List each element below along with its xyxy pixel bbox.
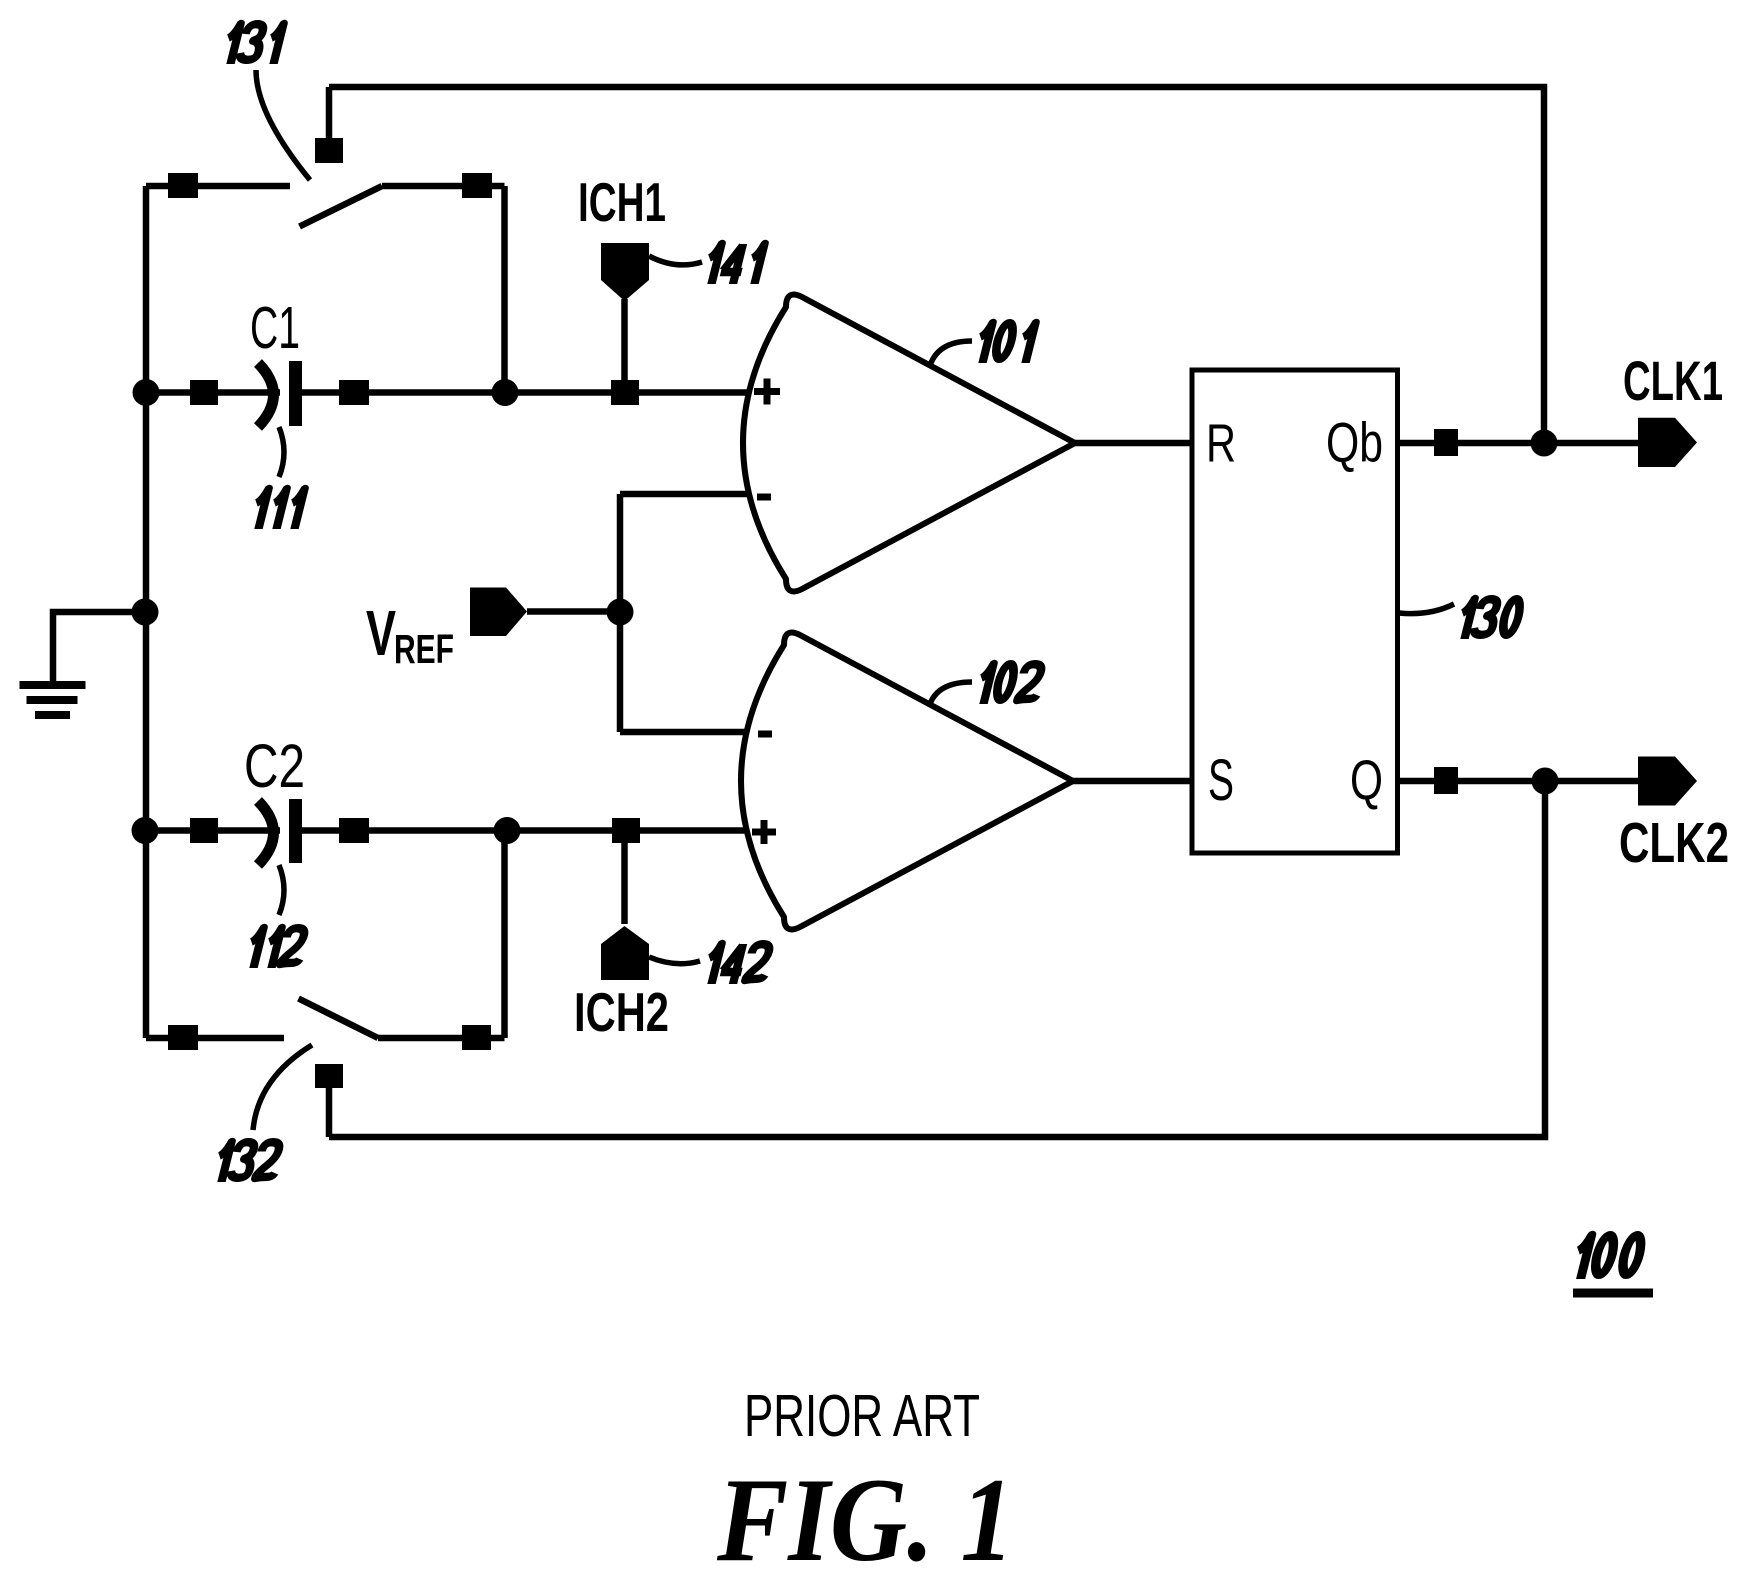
leader for label 101 [929,341,972,369]
current source ICH1 symbol [601,243,649,301]
leader for label 112 [279,865,284,915]
wire right drop from C2 node to switch 132 [501,831,508,1039]
pad C1 right [339,380,369,405]
wire bottom feedback: stub from switch 132 pad down, across bottom, up to CLK2 node [329,781,1545,1137]
CLK1 output arrow [1638,418,1697,467]
label 111 [250,489,304,529]
comparator 102 - input mark [758,731,772,738]
node C2 left [132,817,159,844]
node C2 right [494,817,521,844]
svg-text:V: V [366,597,396,669]
label 130 [1456,599,1523,639]
pad Qb output [1434,429,1458,456]
svg-text:REF: REF [394,626,454,672]
label 101 [974,323,1035,363]
pad ICH2 [612,818,640,843]
wire ICH1 stub [621,299,628,383]
connection pads (squares) [168,138,1458,1088]
pad ICH1 [611,380,639,405]
svg-text:CLK2: CLK2 [1619,811,1729,875]
svg-text:S: S [1208,748,1234,813]
svg-text:R: R [1206,414,1236,474]
node ground tap [132,599,159,626]
node C1 left [133,379,160,406]
switch 132 arm [299,999,379,1039]
pad switch131 right [462,173,492,198]
comparator 101 - input mark [757,494,771,501]
wire top feedback: stub from switch 131 pad up, across top, down to CLK1 node [329,87,1544,443]
svg-text:Qb: Qb [1326,411,1383,474]
label 141 [703,244,764,284]
node VREF [607,599,634,626]
comparator U102 body [741,633,1073,930]
svg-text:ICH1: ICH1 [578,171,666,233]
CLK2 output arrow [1638,757,1697,806]
wire comparator 102 output to latch S [1073,778,1192,785]
leader for label 111 [279,427,284,477]
wire latch Q output to CLK2 [1398,778,1639,785]
pad switch131 top stub [315,138,343,163]
label 131 [222,24,283,64]
capacitor C1 plates [258,361,302,427]
wire comparator 101 - input [620,491,768,498]
comparator 102 + input mark [752,820,776,844]
wire comparator 102 - input [620,729,768,736]
svg-text:ICH2: ICH2 [574,981,669,1043]
label 142 [703,944,772,984]
leader for label 142 [649,957,700,964]
svg-text:PRIOR ART: PRIOR ART [744,1383,980,1449]
leader for label 130 [1399,604,1454,614]
switch 131 arm [300,186,383,227]
svg-text:CLK1: CLK1 [1623,349,1723,412]
wire switch 132 right segment [378,1035,505,1042]
pad switch132 right [462,1025,491,1050]
label 112 [245,928,307,968]
pad switch132 left [168,1025,198,1050]
current source ICH2 symbol [601,926,649,980]
label 132 [213,1142,282,1182]
pad Q output [1434,767,1458,794]
svg-text:C1: C1 [250,295,300,361]
node C1 right [492,379,519,406]
pad switch132 bottom stub [315,1064,343,1088]
wire ground stub [53,612,145,681]
label 100 [1571,1235,1644,1279]
wire switch 131 right segment [382,183,505,190]
pad C2 right [339,818,369,843]
wire ICH2 stub [621,841,628,924]
pad C1 left [190,380,218,405]
SR latch U130 box [1192,370,1398,853]
pad C2 left [190,818,218,843]
wire comparator 101 output to latch R [1075,440,1192,447]
junction dots [132,379,1559,844]
wire left rail [143,186,150,1038]
wire right drop from switch 131 to C1 node [501,186,508,393]
wire C1 row right into comparator 101 + input [302,389,768,396]
leader for label 132 [253,1045,312,1130]
capacitor C2 plates [258,799,302,865]
leader for label 102 [929,682,972,707]
svg-text:FIG. 1: FIG. 1 [716,1453,1014,1576]
node CLK2 [1532,768,1559,795]
pad switch131 left [168,173,198,198]
node CLK1 [1531,430,1558,457]
wire C2 row left [146,827,280,834]
wire VREF to node [527,608,620,615]
ground [20,681,86,719]
wire switch 131 left segment [146,183,290,190]
leader for label 141 [649,256,702,265]
svg-text:C2: C2 [244,732,305,800]
svg-text:Q: Q [1350,748,1383,811]
comparator U101 body [743,295,1075,592]
wire C1 row left [146,389,280,396]
wire VREF vertical to comparator inputs [617,494,624,732]
comparator 101 + input mark [754,379,780,405]
leader for label 131 [256,70,310,180]
underline of label 100 [1573,1289,1653,1298]
VREF input arrow [470,588,527,637]
label 102 [975,664,1044,704]
wire latch Qb output to CLK1 [1398,440,1639,447]
wire switch 132 left segment [146,1035,284,1042]
wire C2 row right into comparator 102 + input [302,827,768,834]
